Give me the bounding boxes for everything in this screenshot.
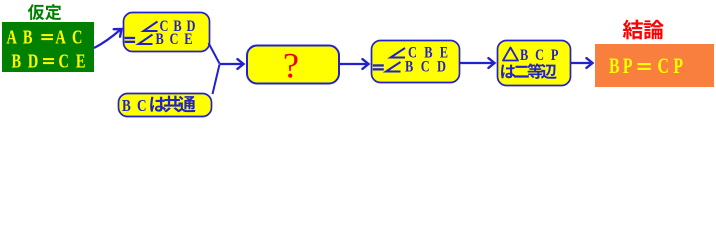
text BD=CE [11,49,85,72]
text line =∠BCE [125,31,193,49]
label 仮定 (assumption) [28,4,61,20]
arrow: triangle box to conclusion [571,58,593,68]
text BP=CP [609,55,683,79]
arrow: ? box to angle CBE box [340,59,369,69]
svg-text:BCD: BCD [405,58,446,76]
box: triangle BCP is isosceles [498,41,571,86]
text line ∠CBD [144,18,196,36]
box: conclusion (orange) [595,44,714,87]
text BCは共通 [122,96,196,116]
arrow: junction to ? box [220,59,244,69]
connector: BC box up to junction [213,65,220,95]
arrow: angle CBE box to triangle box [460,58,495,68]
text line △BCP [503,47,559,65]
text ? [283,46,299,86]
box: ? (unknown step) [247,46,339,84]
text AB=AC [7,25,83,48]
svg-text:BCE: BCE [156,31,193,49]
svg-text:BCP: BCP [520,47,559,65]
box: angle CBD = angle BCE [124,13,210,52]
box: BC は共通 (BC is common) [119,94,212,117]
label 結論 (conclusion) [623,20,664,40]
text line は二等辺 [501,63,557,79]
connector: angle box down to junction [209,43,220,64]
box: angle CBE = angle BCD [372,41,460,83]
text line =∠BCD [373,58,446,76]
box: assumptions (green) [2,22,94,72]
text line ∠CBE [391,44,449,62]
svg-text:?: ? [283,46,299,86]
arrow: assumptions to angle-CBD box [94,29,122,48]
